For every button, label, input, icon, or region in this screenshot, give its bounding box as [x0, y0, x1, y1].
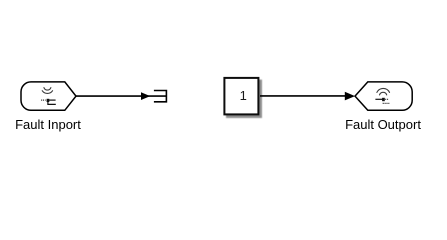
icon Fault Outport: arrowhead blob — [382, 98, 385, 101]
icon Fault Inport: top line — [49, 99, 56, 101]
icon Fault Outport: dashes right — [385, 98, 388, 100]
icon Fault Inport: bracket L — [48, 101, 56, 105]
constant block body — [224, 78, 258, 115]
block Fault Outport (outline) — [355, 82, 412, 110]
wire 1 — [76, 95, 166, 97]
icon Fault Outport: outer arc — [377, 88, 390, 92]
icon Fault Outport: dashes bottom — [383, 102, 390, 104]
icon Fault Inport: inner arc — [44, 88, 51, 91]
arrowhead wire 2 — [345, 92, 355, 101]
icon Fault Inport: arrowhead blob — [47, 99, 50, 102]
wire 2 — [260, 95, 347, 97]
wire-end bracket — [154, 91, 167, 102]
svg-text:1: 1 — [240, 88, 247, 103]
svg-text:Fault Outport: Fault Outport — [345, 117, 421, 132]
constant block shadow — [226, 80, 262, 118]
block Fault Inport (outline) — [21, 82, 76, 110]
icon Fault Inport: dashed lead-in — [41, 99, 45, 101]
arrowhead wire 1 — [141, 92, 150, 100]
icon Fault Outport: inner arc — [380, 92, 387, 95]
icon Fault Outport: solid lead line — [375, 98, 382, 100]
svg-text:Fault Inport: Fault Inport — [15, 117, 81, 132]
icon Fault Inport: outer arc — [42, 91, 52, 94]
